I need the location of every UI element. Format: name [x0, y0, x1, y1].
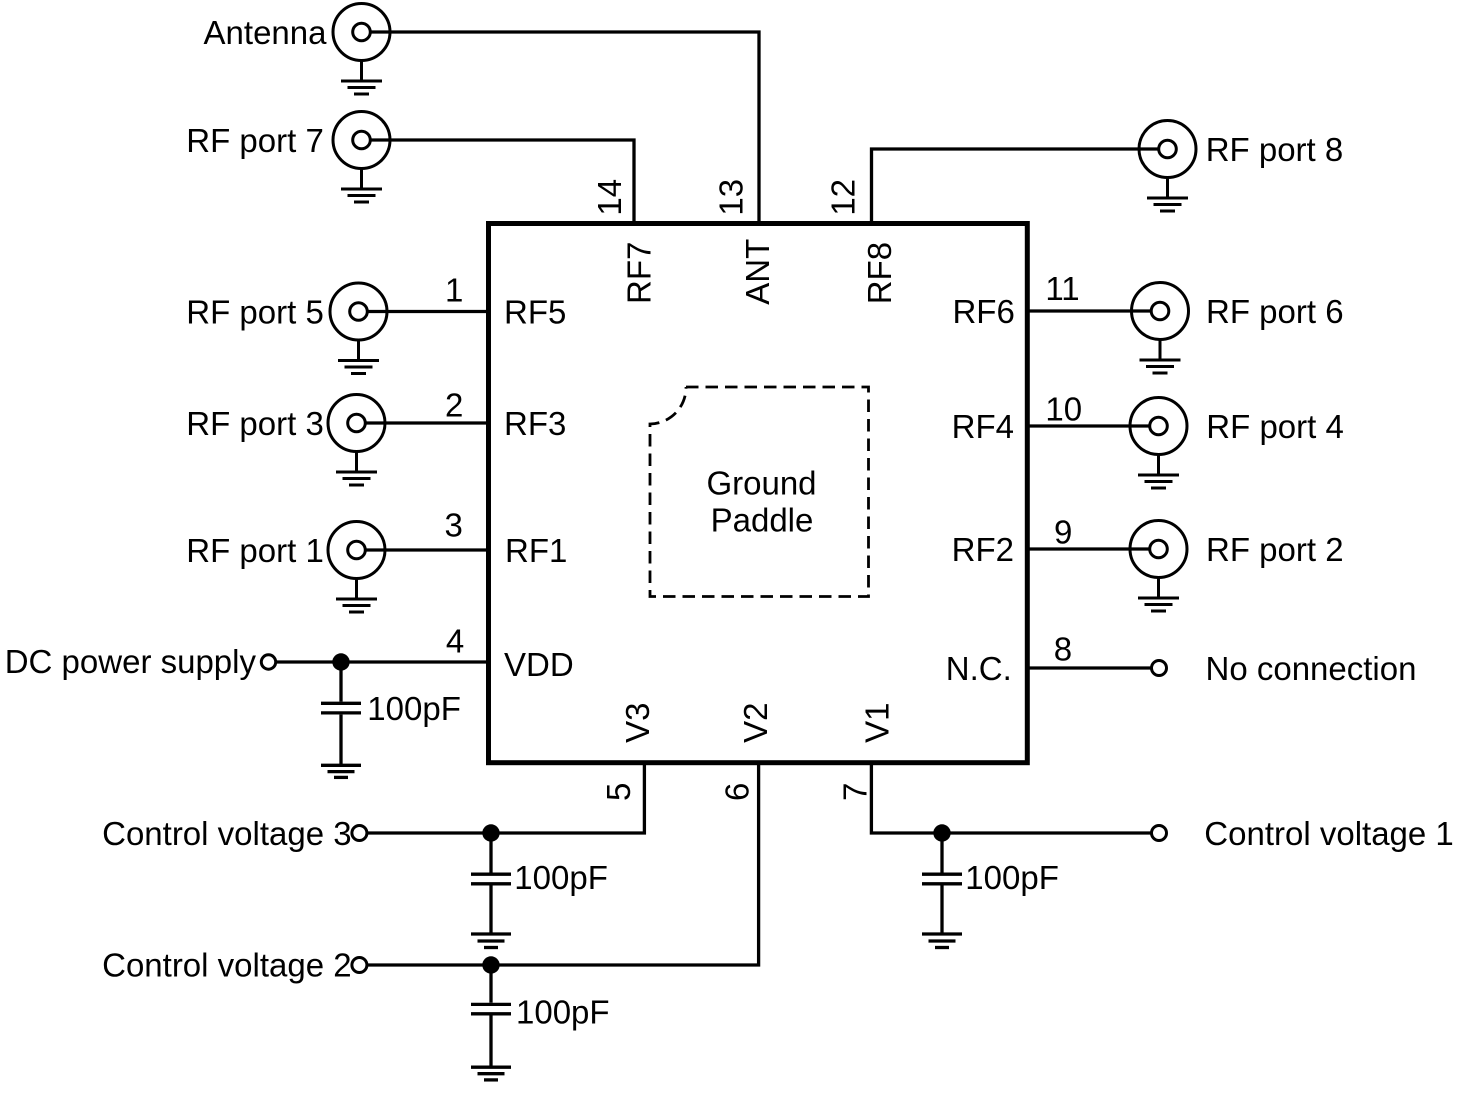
svg-text:Antenna: Antenna	[204, 14, 328, 51]
svg-text:10: 10	[1045, 391, 1082, 428]
svg-text:V2: V2	[737, 703, 774, 743]
svg-text:ANT: ANT	[739, 239, 776, 305]
coax connector RF port 6	[1132, 283, 1189, 374]
svg-text:Control voltage 1: Control voltage 1	[1204, 815, 1453, 852]
capacitor C2 100pF	[471, 833, 511, 948]
svg-text:100pF: 100pF	[516, 993, 610, 1030]
svg-text:V3: V3	[619, 703, 656, 743]
svg-text:RF port 8: RF port 8	[1206, 131, 1344, 168]
wire pin 4 VDD from DC supply	[277, 660, 488, 663]
terminal DC power supply	[261, 655, 275, 669]
svg-text:7: 7	[836, 783, 873, 801]
svg-text:RF port 2: RF port 2	[1206, 531, 1344, 568]
svg-text:Ground: Ground	[706, 465, 816, 502]
svg-text:100pF: 100pF	[514, 859, 608, 896]
svg-text:100pF: 100pF	[965, 859, 1059, 896]
wire pin 12 to RF port 8	[872, 149, 1159, 224]
svg-text:RF port 3: RF port 3	[186, 405, 324, 442]
svg-text:RF port 4: RF port 4	[1206, 408, 1344, 445]
svg-text:RF2: RF2	[952, 531, 1014, 568]
IC U1 body	[489, 224, 1028, 763]
svg-text:14: 14	[591, 179, 628, 216]
wire pin 8 N.C.	[1027, 666, 1151, 669]
svg-text:RF4: RF4	[952, 408, 1014, 445]
svg-text:RF6: RF6	[952, 293, 1014, 330]
junction V1	[933, 824, 950, 841]
svg-text:VDD: VDD	[504, 646, 574, 683]
capacitor C1 100pF	[321, 662, 361, 777]
terminal Control voltage 3	[352, 826, 367, 841]
svg-text:5: 5	[600, 783, 637, 801]
svg-text:4: 4	[446, 623, 464, 660]
junction V2	[482, 956, 499, 973]
wire pin 3 RF1	[366, 548, 489, 551]
junction V3	[482, 824, 499, 841]
coax connector RF port 7	[333, 112, 390, 203]
svg-text:RF7: RF7	[620, 242, 657, 304]
wire pin 6 V2 to control voltage 2	[368, 763, 759, 966]
capacitor C3 100pF	[471, 965, 511, 1080]
capacitor C4 100pF	[922, 833, 962, 948]
svg-text:13: 13	[712, 179, 749, 216]
terminal Control voltage 1	[1152, 826, 1167, 841]
svg-text:RF port 7: RF port 7	[186, 122, 324, 159]
wire pin 9 RF2	[1027, 547, 1150, 550]
svg-text:N.C.: N.C.	[946, 650, 1012, 687]
svg-text:11: 11	[1045, 270, 1079, 307]
svg-text:3: 3	[445, 507, 463, 544]
wire pin 2 RF3	[366, 421, 489, 424]
svg-text:12: 12	[825, 179, 862, 216]
svg-text:6: 6	[719, 783, 756, 801]
wire pin 13 to antenna	[371, 32, 760, 224]
terminal Control voltage 2	[352, 958, 367, 973]
svg-text:Control voltage 2: Control voltage 2	[102, 947, 351, 984]
svg-text:DC power supply: DC power supply	[5, 643, 257, 680]
svg-text:RF port 1: RF port 1	[186, 532, 324, 569]
coax connector Antenna	[333, 4, 390, 95]
coax connector RF port 5	[330, 283, 387, 374]
wire pin 5 V3 to control voltage 3	[368, 763, 644, 834]
svg-text:Paddle: Paddle	[711, 501, 814, 538]
junction VDD	[332, 653, 349, 670]
svg-text:No connection: No connection	[1206, 650, 1417, 687]
wire pin 11 RF6	[1027, 309, 1151, 312]
terminal No connection	[1152, 661, 1167, 676]
wire pin 1 RF5	[368, 310, 489, 313]
wire pin 7 V1 to control voltage 1	[871, 763, 1150, 834]
wire pin 10 RF4	[1027, 424, 1151, 427]
svg-text:RF8: RF8	[861, 242, 898, 304]
svg-text:8: 8	[1054, 630, 1072, 667]
svg-text:V1: V1	[858, 703, 895, 743]
svg-text:100pF: 100pF	[367, 690, 461, 727]
svg-text:2: 2	[445, 386, 463, 423]
svg-text:RF5: RF5	[504, 294, 566, 331]
coax connector RF port 2	[1130, 521, 1187, 612]
coax connector RF port 4	[1130, 398, 1187, 489]
coax connector RF port 8	[1139, 121, 1196, 212]
svg-text:RF port 5: RF port 5	[186, 294, 324, 331]
svg-text:RF port 6: RF port 6	[1206, 293, 1344, 330]
svg-text:1: 1	[445, 271, 463, 308]
wire pin 14 to RF port 7	[371, 140, 635, 224]
svg-text:Control voltage 3: Control voltage 3	[102, 815, 351, 852]
svg-text:RF3: RF3	[504, 405, 566, 442]
coax connector RF port 3	[328, 395, 385, 486]
ground paddle dashed outline	[650, 387, 869, 597]
coax connector RF port 1	[328, 522, 385, 613]
svg-text:RF1: RF1	[505, 532, 567, 569]
svg-text:9: 9	[1054, 514, 1072, 551]
